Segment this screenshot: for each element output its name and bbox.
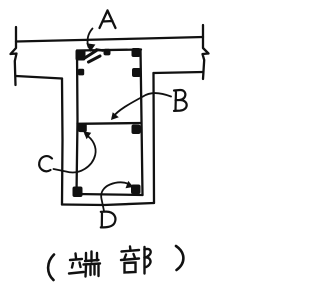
hook end tick xyxy=(97,50,103,51)
flange top edge xyxy=(16,37,203,42)
stem left edge xyxy=(61,79,64,205)
label B xyxy=(174,90,187,111)
leader arrow B xyxy=(113,93,172,118)
rebar dot left middle xyxy=(78,124,87,133)
leader arrow D xyxy=(101,182,130,211)
stem right edge xyxy=(152,73,155,203)
stem bottom edge xyxy=(62,203,154,205)
break symbol left (wall cut line) xyxy=(11,27,17,85)
rebar dot left upper xyxy=(78,69,84,76)
label D xyxy=(101,212,116,228)
kanji 端 (right part 耑) xyxy=(84,252,101,277)
break symbol right (wall cut line) xyxy=(203,25,209,79)
label C xyxy=(39,156,52,171)
kanji 端 (left radical 立) xyxy=(69,254,84,274)
rebar dot top-left corner xyxy=(76,50,86,61)
rebar dot bottom-left corner xyxy=(73,187,83,198)
flange bottom edge left xyxy=(16,76,62,79)
leader arrow C xyxy=(54,135,96,173)
middle tie line xyxy=(78,122,142,125)
rebar dot right upper xyxy=(132,68,141,77)
open parenthesis xyxy=(48,255,54,281)
stirrup bottom edge xyxy=(77,194,143,195)
stirrup right edge xyxy=(141,50,143,196)
leader arrow A xyxy=(88,29,93,48)
flange bottom edge right xyxy=(154,72,204,73)
stirrup top edge xyxy=(77,50,141,51)
stirrup left edge xyxy=(77,51,78,195)
label A xyxy=(100,11,116,29)
kanji 部 (left part) xyxy=(121,247,139,273)
close parenthesis xyxy=(176,246,183,270)
rebar dot bottom-right corner xyxy=(131,185,141,195)
kanji 部 (right radical) xyxy=(145,247,151,274)
stirrup hook marks at top-left corner xyxy=(86,51,101,63)
rebar dot top-right corner xyxy=(132,48,141,57)
rebar dot top-middle xyxy=(104,49,111,56)
rebar dot right middle xyxy=(132,125,141,135)
